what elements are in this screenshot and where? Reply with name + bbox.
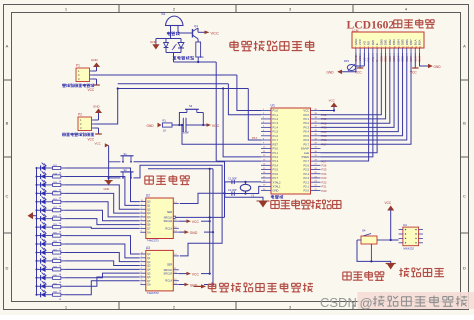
svg-text:GND: GND xyxy=(190,231,198,235)
svg-text:VCC: VCC xyxy=(192,220,200,224)
svg-text:B: B xyxy=(463,121,466,126)
svg-text:P0.1: P0.1 xyxy=(303,117,309,121)
svg-text:Q5: Q5 xyxy=(147,271,151,275)
svg-text:P1.4: P1.4 xyxy=(273,125,279,129)
svg-text:A: A xyxy=(6,44,9,49)
svg-text:S2: S2 xyxy=(124,168,128,172)
svg-text:P3.7: P3.7 xyxy=(273,176,279,180)
svg-text:GA: GA xyxy=(147,283,151,287)
svg-text:B: B xyxy=(6,121,9,126)
svg-text:P3.2: P3.2 xyxy=(273,155,279,159)
svg-text:ALE: ALE xyxy=(304,151,309,155)
svg-text:74HC573: 74HC573 xyxy=(147,239,159,243)
svg-text:P2.3: P2.3 xyxy=(303,176,309,180)
svg-text:P3.6: P3.6 xyxy=(273,172,279,176)
svg-text:VCC: VCC xyxy=(95,141,102,145)
svg-text:GND: GND xyxy=(91,58,99,62)
svg-text:A: A xyxy=(463,44,466,49)
svg-text:P1.6: P1.6 xyxy=(273,134,279,138)
svg-text:GND: GND xyxy=(93,105,101,109)
svg-text:Q4: Q4 xyxy=(147,215,151,219)
svg-text:Q3: Q3 xyxy=(147,211,151,215)
svg-text:SRCLR: SRCLR xyxy=(164,272,173,276)
svg-text:U4: U4 xyxy=(403,223,407,227)
svg-text:GND: GND xyxy=(147,124,155,128)
svg-text:VCC: VCC xyxy=(303,109,309,113)
svg-text:VCC: VCC xyxy=(329,99,336,103)
svg-text:RCLK: RCLK xyxy=(165,279,172,283)
svg-text:74HC573: 74HC573 xyxy=(147,291,159,295)
svg-text:SER: SER xyxy=(167,262,172,266)
svg-text:SRCLK: SRCLK xyxy=(164,215,173,219)
svg-text:VCC: VCC xyxy=(211,30,220,35)
svg-text:@: @ xyxy=(360,296,373,311)
svg-text:P3.3: P3.3 xyxy=(273,159,279,163)
svg-text:P0.6: P0.6 xyxy=(303,138,309,142)
svg-text:2k: 2k xyxy=(201,55,205,59)
svg-text:Q3: Q3 xyxy=(147,264,151,268)
svg-text:Q0: Q0 xyxy=(147,200,151,204)
svg-text:P1.3: P1.3 xyxy=(273,121,279,125)
svg-text:MAX232: MAX232 xyxy=(404,247,415,251)
svg-text:P2.7: P2.7 xyxy=(303,159,309,163)
svg-text:P20: P20 xyxy=(322,189,327,193)
svg-text:P2.6: P2.6 xyxy=(303,163,309,167)
svg-text:Q2: Q2 xyxy=(147,207,151,211)
svg-text:C2 30P: C2 30P xyxy=(228,188,237,192)
svg-text:P1.0: P1.0 xyxy=(273,109,279,113)
svg-text:XTAL1: XTAL1 xyxy=(273,184,282,188)
svg-text:C: C xyxy=(463,194,466,199)
svg-text:Q7: Q7 xyxy=(147,227,151,231)
svg-text:U3: U3 xyxy=(146,246,150,250)
svg-text:GA: GA xyxy=(147,230,151,234)
svg-text:GND: GND xyxy=(104,187,110,191)
svg-text:P3.5: P3.5 xyxy=(273,168,279,172)
svg-text:P1.2: P1.2 xyxy=(273,117,279,121)
svg-text:P3.0: P3.0 xyxy=(273,147,279,151)
svg-text:SRCLR: SRCLR xyxy=(164,219,173,223)
svg-text:Q7: Q7 xyxy=(147,279,151,283)
svg-text:Q0: Q0 xyxy=(147,252,151,256)
svg-text:S3: S3 xyxy=(189,104,193,108)
svg-text:P0.5: P0.5 xyxy=(303,134,309,138)
svg-text:1K: 1K xyxy=(163,129,166,133)
svg-text:R1: R1 xyxy=(163,119,167,123)
svg-text:CSDN: CSDN xyxy=(320,295,357,310)
svg-text:P2.0: P2.0 xyxy=(303,189,309,193)
svg-text:S1: S1 xyxy=(124,152,128,156)
svg-text:GND: GND xyxy=(327,71,335,75)
svg-text:P3.4: P3.4 xyxy=(273,163,279,167)
svg-text:RCLK: RCLK xyxy=(165,226,172,230)
svg-text:GND: GND xyxy=(273,189,279,193)
svg-text:P0.3: P0.3 xyxy=(303,125,309,129)
svg-text:Q1: Q1 xyxy=(147,256,151,260)
svg-text:D: D xyxy=(6,266,9,271)
svg-text:RP1: RP1 xyxy=(344,59,350,63)
svg-text:SRCLK: SRCLK xyxy=(164,268,173,272)
svg-text:Q5: Q5 xyxy=(147,219,151,223)
svg-text:GND: GND xyxy=(434,65,442,69)
svg-text:XTAL2: XTAL2 xyxy=(273,180,282,184)
svg-text:BLK: BLK xyxy=(418,40,422,46)
svg-text:Q2: Q2 xyxy=(147,260,151,264)
svg-text:C: C xyxy=(6,194,9,199)
svg-text:VCC: VCC xyxy=(212,124,220,128)
svg-text:P0.2: P0.2 xyxy=(303,121,309,125)
svg-text:P0.7: P0.7 xyxy=(303,142,309,146)
svg-text:EA/VP: EA/VP xyxy=(301,147,309,151)
svg-text:U1: U1 xyxy=(271,104,275,108)
svg-text:VCC: VCC xyxy=(385,201,392,205)
svg-text:VCC: VCC xyxy=(355,71,362,75)
svg-text:P3.1: P3.1 xyxy=(273,151,279,155)
svg-text:SER: SER xyxy=(167,210,172,214)
svg-text:P1: P1 xyxy=(76,64,80,68)
svg-text:Q6: Q6 xyxy=(147,275,151,279)
svg-text:Q1: Q1 xyxy=(194,24,198,28)
svg-text:P2.5: P2.5 xyxy=(303,168,309,172)
svg-text:Q6: Q6 xyxy=(147,223,151,227)
svg-text:P2: P2 xyxy=(78,113,82,117)
svg-text:C1 30P: C1 30P xyxy=(228,177,237,181)
svg-text:VCC: VCC xyxy=(88,88,95,92)
svg-text:Y1: Y1 xyxy=(251,194,255,198)
svg-text:VCC: VCC xyxy=(192,273,200,277)
svg-text:Q4: Q4 xyxy=(147,267,151,271)
svg-text:P2.1: P2.1 xyxy=(303,184,309,188)
svg-text:P1.1: P1.1 xyxy=(273,113,279,117)
svg-text:GND: GND xyxy=(150,40,158,44)
svg-text:PSEN: PSEN xyxy=(302,155,309,159)
svg-text:U2: U2 xyxy=(146,194,150,198)
svg-text:P1.5: P1.5 xyxy=(273,130,279,134)
svg-text:P2.2: P2.2 xyxy=(303,180,309,184)
svg-text:D: D xyxy=(463,266,466,271)
svg-text:S4: S4 xyxy=(362,229,366,233)
svg-text:P0.0: P0.0 xyxy=(303,113,309,117)
svg-text:Q1: Q1 xyxy=(147,204,151,208)
svg-text:P1.7: P1.7 xyxy=(273,138,279,142)
svg-text:10uF: 10uF xyxy=(183,131,189,135)
svg-text:RST: RST xyxy=(273,142,279,146)
svg-text:B1: B1 xyxy=(162,12,166,16)
svg-text:VCC: VCC xyxy=(410,71,417,75)
svg-text:P17: P17 xyxy=(252,136,258,140)
svg-text:P0.4: P0.4 xyxy=(303,130,309,134)
svg-text:P2.4: P2.4 xyxy=(303,172,309,176)
